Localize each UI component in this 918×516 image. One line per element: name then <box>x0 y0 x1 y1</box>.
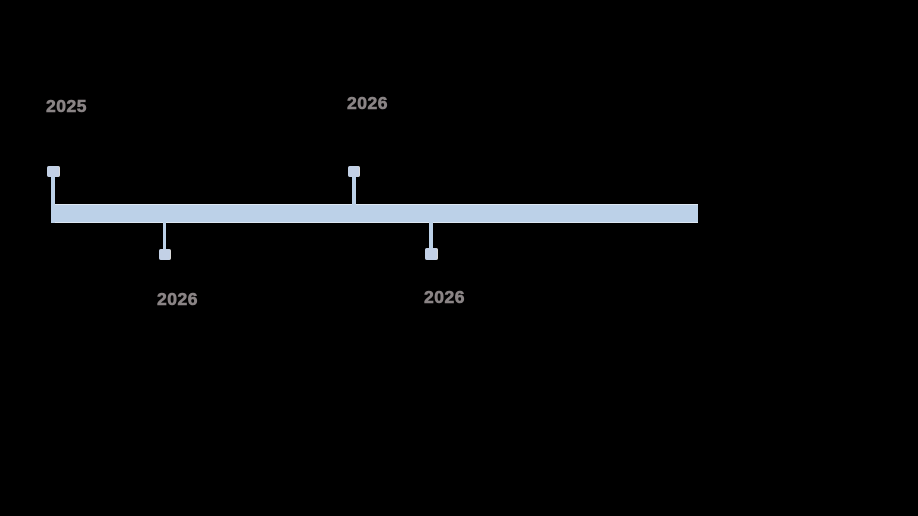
marker M1 stem <box>51 176 55 223</box>
label 2026 bottom-right <box>424 289 465 307</box>
marker M2 square <box>348 166 359 177</box>
marker M3 stem <box>163 222 167 250</box>
marker M4 square <box>425 248 437 260</box>
label 2025 <box>46 98 87 116</box>
marker M3 square <box>159 249 170 260</box>
label 2026 top <box>347 95 388 113</box>
marker M4 stem <box>429 222 433 249</box>
marker M1 square <box>47 166 59 177</box>
label 2026 bottom-left <box>157 291 198 309</box>
marker M2 stem <box>352 176 356 205</box>
timeline bar <box>51 204 698 223</box>
